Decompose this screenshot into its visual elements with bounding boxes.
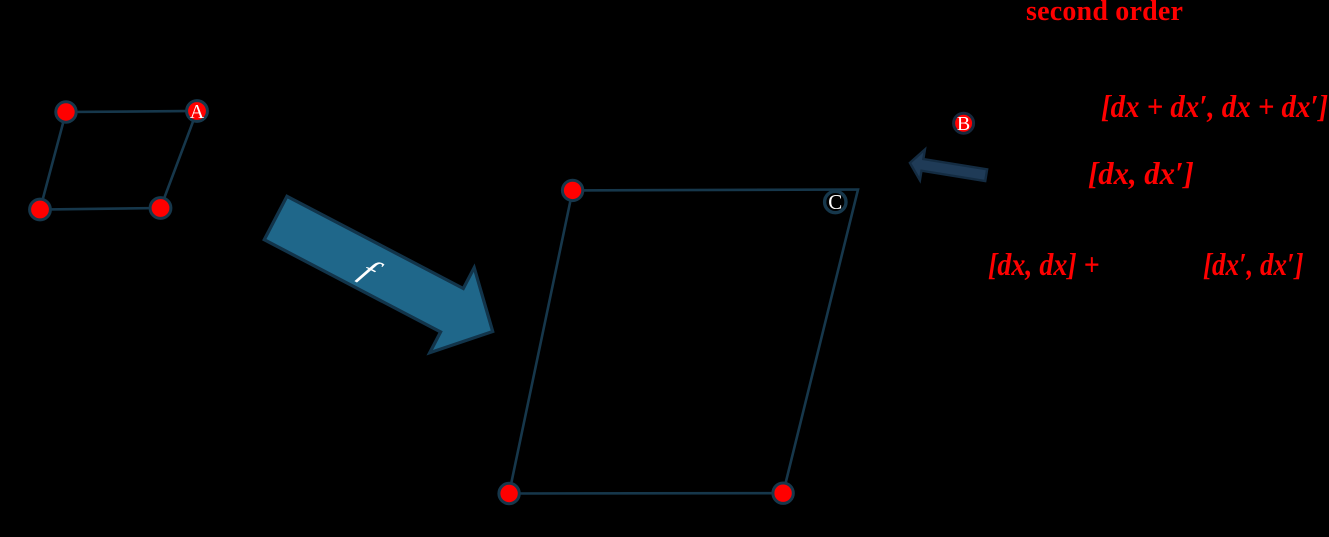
svg-text:B: B xyxy=(957,113,970,135)
svg-text:C: C xyxy=(828,190,842,214)
svg-text:A: A xyxy=(190,101,205,123)
